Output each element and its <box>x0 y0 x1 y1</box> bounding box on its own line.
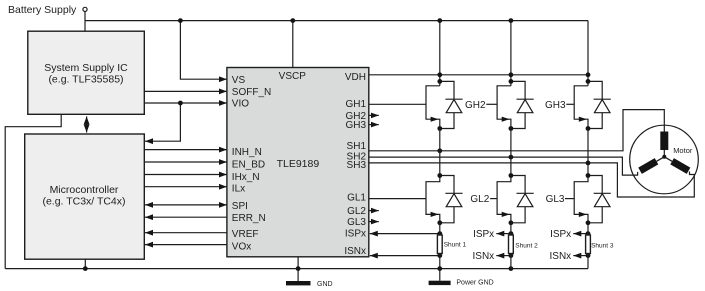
wire GL2 stub <box>369 210 379 212</box>
node ISPx tap shunt 3 <box>586 231 591 236</box>
diode D2L body diode <box>511 176 534 223</box>
wire SPI bidirectional <box>145 204 227 206</box>
system supply IC U1 <box>28 31 145 114</box>
diode D3L body diode <box>588 176 611 223</box>
svg-text:Shunt 1: Shunt 1 <box>444 242 467 249</box>
svg-text:ISNx: ISNx <box>550 251 572 262</box>
svg-text:VREF: VREF <box>232 229 259 240</box>
ground Power GND symbol <box>429 281 451 285</box>
wire phase 1 battery rail to high-side drain <box>439 21 441 86</box>
wire ISNx label shunt 2 <box>496 255 511 257</box>
node ISPx tap shunt 2 <box>509 231 514 236</box>
wire SOFF_N <box>144 90 227 92</box>
wire gate GH3 <box>566 103 574 105</box>
wire ground rail <box>5 268 588 270</box>
wire VIO branch to microcontroller <box>145 103 180 141</box>
wire VSCP to battery rail <box>292 21 294 68</box>
ground GND symbol <box>286 281 311 285</box>
diode D1L body diode <box>440 176 463 223</box>
battery supply terminal <box>83 7 87 11</box>
node phase 3 high-side source junction <box>586 126 591 131</box>
wire IHx_N <box>144 174 227 176</box>
wire shunt 3 to ground rail <box>587 254 589 269</box>
node SH1 phase junction <box>437 148 442 153</box>
node phase 2 low-side source junction <box>509 220 514 225</box>
wire ILx <box>144 186 227 188</box>
svg-text:IHx_N: IHx_N <box>232 172 260 183</box>
shunt 3 resistor <box>586 235 591 254</box>
node ISNx shunt 1 junction <box>437 253 442 258</box>
transistor Q3 high-side MOSFET <box>574 86 588 129</box>
node phase 1 high-side diode junction <box>437 79 442 84</box>
wire phase 1 midpoint <box>439 129 441 176</box>
wire battery rail <box>85 20 588 22</box>
node phase 3 high-side diode junction <box>586 79 591 84</box>
wire phase 1 source to shunt <box>439 223 441 235</box>
node VS rail junction <box>178 18 183 23</box>
wire INH_N <box>144 149 227 151</box>
svg-text:GL3: GL3 <box>546 194 565 205</box>
wire phase 3 source to shunt <box>587 223 589 235</box>
node ISNx tap shunt 3 <box>586 253 591 258</box>
svg-text:EN_BD: EN_BD <box>232 160 265 171</box>
svg-text:Power GND: Power GND <box>456 280 493 287</box>
motor M1 housing <box>630 125 699 194</box>
wire gate GL3 <box>565 198 574 200</box>
svg-text:SH1: SH1 <box>347 141 367 152</box>
svg-text:ISNx: ISNx <box>473 251 495 262</box>
svg-text:VSCP: VSCP <box>279 71 307 82</box>
wire gate GL2 <box>490 198 497 200</box>
node ground rail junction phase 2 <box>509 266 514 271</box>
wire VS from battery rail <box>180 21 227 80</box>
node TLE ground rail junction <box>296 266 301 271</box>
svg-text:Shunt 3: Shunt 3 <box>591 243 614 250</box>
svg-text:GH1: GH1 <box>345 99 366 110</box>
wire GH1 <box>369 103 426 105</box>
svg-text:VIO: VIO <box>232 99 249 110</box>
wire VIO <box>144 102 227 104</box>
wire phase 3 midpoint <box>587 129 589 176</box>
svg-text:SPI: SPI <box>232 201 248 212</box>
transistor Q3 low-side MOSFET <box>574 176 588 223</box>
svg-text:GL2: GL2 <box>470 194 489 205</box>
svg-text:GL3: GL3 <box>347 217 366 228</box>
svg-text:VS: VS <box>232 75 246 86</box>
wire GL3 stub <box>369 221 379 223</box>
node phase 2 battery rail junction <box>509 18 514 23</box>
wire ISPx to shunt 1 <box>370 233 440 235</box>
wire ISPx label shunt 2 <box>496 233 511 235</box>
svg-text:ERR_N: ERR_N <box>232 213 266 224</box>
wire phase 2 source to shunt <box>510 223 512 235</box>
wire SH1 phase 1 to motor <box>369 110 665 151</box>
wire GH3 stub <box>369 124 379 126</box>
diode D1H body diode <box>440 81 463 128</box>
motor winding phase 2 <box>638 154 666 174</box>
node phase 1 battery rail junction <box>437 18 442 23</box>
node phase 2 high-side source junction <box>509 126 514 131</box>
node phase 2 VDH junction <box>509 72 514 77</box>
node phase 3 VDH junction <box>586 72 591 77</box>
svg-text:System Supply IC: System Supply IC <box>44 62 128 74</box>
wire phase 2 battery rail to high-side drain <box>510 21 512 86</box>
transistor Q1 high-side MOSFET <box>426 86 440 129</box>
node ISNx tap shunt 2 <box>509 253 514 258</box>
transistor Q1 low-side MOSFET <box>426 176 440 223</box>
svg-text:SOFF_N: SOFF_N <box>232 87 271 98</box>
node phase 3 low-side source junction <box>586 220 591 225</box>
wire phase 3 battery rail to high-side drain <box>587 21 589 86</box>
svg-text:GH2: GH2 <box>465 100 486 111</box>
svg-text:GND: GND <box>317 281 333 288</box>
diode D2H body diode <box>511 81 534 128</box>
wire SH3 phase 3 to motor <box>369 163 695 197</box>
wire TLE ground stub <box>297 257 299 281</box>
wire battery terminal to system supply IC <box>84 12 86 32</box>
svg-text:ISNx: ISNx <box>344 246 366 257</box>
wire ISNx to shunt 1 <box>370 255 440 257</box>
gate driver IC TLE9189 U3 <box>227 68 369 257</box>
node phase 2 low-side drain junction <box>509 173 514 178</box>
wire EN_BD <box>144 161 227 163</box>
wire GL1 <box>369 198 426 200</box>
node motor star point <box>662 155 666 159</box>
wire ISPx label shunt 3 <box>573 233 588 235</box>
shunt 2 resistor <box>509 235 514 254</box>
transistor Q2 low-side MOSFET <box>497 176 511 223</box>
svg-text:(e.g. TC3x/ TC4x): (e.g. TC3x/ TC4x) <box>42 196 125 208</box>
svg-text:Motor: Motor <box>673 146 693 155</box>
node phase 1 high-side source junction <box>437 126 442 131</box>
svg-text:ISPx: ISPx <box>473 229 494 240</box>
svg-text:ILx: ILx <box>232 184 245 195</box>
svg-text:VDH: VDH <box>345 72 366 83</box>
wire VOx <box>145 244 227 246</box>
node phase 1 VDH junction <box>437 72 442 77</box>
wire system supply ground to ground rail <box>5 114 61 268</box>
transistor Q2 high-side MOSFET <box>497 86 511 129</box>
diode D3H body diode <box>588 81 611 128</box>
svg-text:VOx: VOx <box>232 242 251 253</box>
motor winding phase 1 <box>660 132 668 157</box>
node SH2 phase junction <box>509 155 514 160</box>
svg-text:GL1: GL1 <box>347 192 366 203</box>
svg-text:Battery Supply: Battery Supply <box>8 4 77 16</box>
wire supply IC to microcontroller bidirectional <box>86 116 88 132</box>
svg-text:Shunt 2: Shunt 2 <box>515 243 538 250</box>
svg-text:(e.g. TLF35585): (e.g. TLF35585) <box>48 74 123 86</box>
wire GH2 stub <box>369 114 379 116</box>
svg-text:ISPx: ISPx <box>550 229 571 240</box>
node phase 3 low-side drain junction <box>586 173 591 178</box>
node SH3 phase junction <box>586 161 591 166</box>
svg-text:ISPx: ISPx <box>345 229 366 240</box>
wire ISNx label shunt 3 <box>573 255 588 257</box>
svg-text:GL2: GL2 <box>347 206 366 217</box>
svg-text:GH3: GH3 <box>345 120 366 131</box>
microcontroller U2 <box>25 134 145 259</box>
wire phase 2 midpoint <box>510 129 512 176</box>
svg-text:SH3: SH3 <box>347 160 367 171</box>
motor winding phase 3 <box>663 154 691 174</box>
node ISPx shunt 1 junction <box>437 231 442 236</box>
svg-text:Microcontroller: Microcontroller <box>50 184 119 196</box>
wire gate GH2 <box>486 103 497 105</box>
node phase 1 low-side drain junction <box>437 173 442 178</box>
wire VDH rail <box>369 74 588 76</box>
wire SH2 phase 2 to motor <box>369 157 638 175</box>
wire VREF <box>145 232 227 234</box>
wire power ground stub <box>439 269 441 281</box>
svg-text:GH3: GH3 <box>545 100 566 111</box>
node VIO branch junction <box>178 101 183 106</box>
wire microcontroller ground <box>84 259 86 268</box>
node phase 2 high-side diode junction <box>509 79 514 84</box>
node microcontroller ground junction <box>83 266 88 271</box>
node VSCP rail junction <box>290 18 295 23</box>
node phase 1 low-side source junction <box>437 220 442 225</box>
svg-text:TLE9189: TLE9189 <box>277 158 320 170</box>
wire ERR_N <box>145 216 227 218</box>
wire shunt 1 to ground rail <box>439 254 441 269</box>
shunt 1 resistor <box>437 235 442 254</box>
node power ground rail junction phase 1 <box>437 266 442 271</box>
wire shunt 2 to ground rail <box>510 254 512 269</box>
svg-text:INH_N: INH_N <box>232 147 262 158</box>
